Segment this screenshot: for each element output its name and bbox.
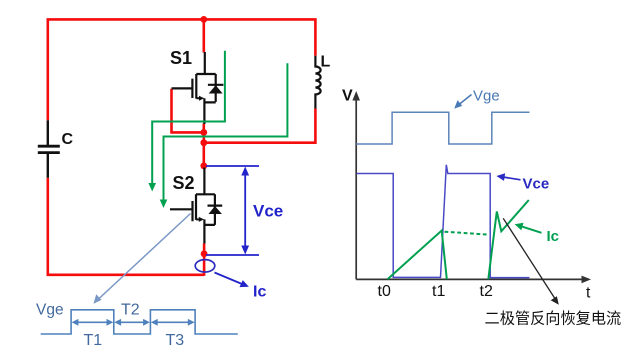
wire S1 gate loop red — [172, 89, 204, 133]
Vce chart label leader arrow — [503, 177, 521, 180]
transistor S1 gate — [172, 79, 193, 98]
junction node Vce top — [200, 162, 207, 169]
transistor S2 channel arrow — [196, 218, 200, 220]
Ic leader arrow — [215, 273, 243, 285]
transistor S1 channel arrow — [196, 97, 200, 99]
chart t axis — [356, 278, 583, 280]
arrowhead green loop 2 — [160, 200, 168, 209]
inductor L1 — [315, 56, 320, 109]
svg-text:t2: t2 — [480, 283, 493, 300]
svg-text:S2: S2 — [173, 173, 195, 193]
svg-text:L: L — [321, 54, 331, 71]
svg-text:二极管反向恢复电流: 二极管反向恢复电流 — [485, 311, 622, 328]
svg-text:T2: T2 — [121, 302, 140, 319]
svg-text:Vce: Vce — [253, 202, 283, 221]
junction node inductor return — [200, 139, 207, 146]
Vge timing waveform — [41, 310, 238, 334]
capacitor C1 plates — [38, 146, 60, 152]
Vce dimension top line — [206, 165, 259, 167]
current probe ellipse — [195, 260, 215, 272]
junction node top rail — [200, 16, 207, 23]
T1 interval double arrow — [75, 321, 110, 323]
svg-text:t: t — [586, 285, 591, 302]
Ic chart label leader arrow — [522, 227, 542, 233]
svg-text:S1: S1 — [170, 48, 192, 68]
Vce waveform chart — [357, 165, 530, 278]
T3 interval double arrow — [154, 321, 192, 323]
svg-text:Vce: Vce — [523, 176, 550, 193]
transistor S1 body — [196, 52, 215, 124]
Ic reverse recovery spike after t2 — [488, 200, 529, 279]
Vge waveform chart — [356, 112, 529, 144]
junction node gate loop — [200, 129, 207, 136]
junction node Vce bottom — [201, 250, 208, 257]
wire left rail lower and bottom rail — [48, 178, 204, 275]
Vce dimension double arrow — [244, 172, 246, 249]
arrowhead green loop 1 — [148, 183, 156, 192]
Ic ramp t0 to t1 — [388, 231, 447, 280]
wire top rail DC+ with left and right drops — [48, 19, 316, 120]
Ic dashed freewheel segment — [445, 232, 488, 235]
wire green current loop 2 — [164, 63, 288, 202]
svg-text:Ic: Ic — [547, 228, 560, 245]
svg-text:T3: T3 — [166, 332, 185, 349]
svg-text:V: V — [342, 88, 353, 105]
wire midpoint to inductor bottom — [204, 109, 316, 143]
T2 interval double arrow — [118, 321, 148, 323]
diode D2 body of S2 — [208, 194, 223, 225]
svg-text:Vge: Vge — [36, 302, 64, 319]
svg-text:T1: T1 — [84, 332, 103, 349]
svg-text:t1: t1 — [432, 283, 445, 300]
svg-text:C: C — [62, 131, 74, 148]
chart V axis — [355, 99, 357, 279]
wire S1 drain from top rail — [203, 19, 206, 52]
transistor S2 gate — [170, 201, 193, 221]
leader line to reverse recovery note — [503, 218, 556, 301]
capacitor C1 leads — [47, 120, 49, 177]
Vge chart label leader arrow — [459, 95, 472, 105]
svg-text:t0: t0 — [378, 283, 391, 300]
svg-text:Vge: Vge — [473, 88, 500, 105]
diode D1 body of S1 — [208, 74, 224, 102]
svg-text:Ic: Ic — [253, 284, 266, 301]
wire S2 source to bottom rail corner — [203, 244, 206, 276]
wire midpoint vertical S1 source to S2 drain — [203, 124, 206, 168]
leader line from S2 gate to Vge timing diagram — [98, 214, 191, 300]
wire green current loop 1 — [152, 51, 225, 186]
transistor S2 body — [196, 168, 215, 244]
Vce dimension bottom line — [206, 254, 259, 256]
